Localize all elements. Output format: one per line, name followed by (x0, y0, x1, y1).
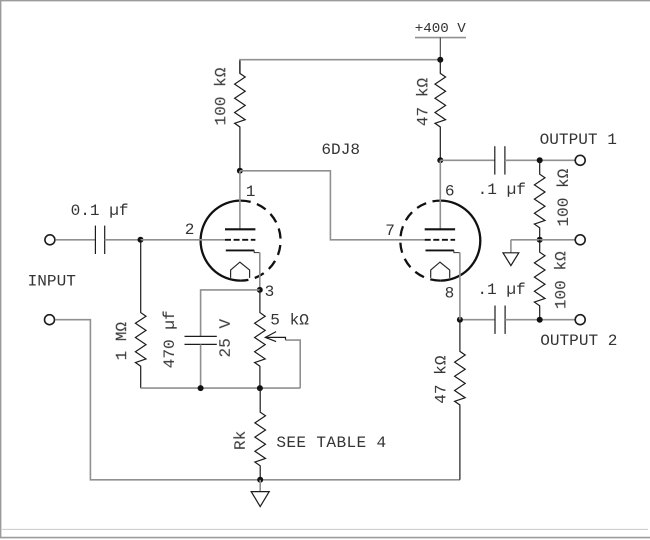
node: V2 plate node (pin 6) (437, 157, 443, 163)
resistor 1 MOhm (grid leak) (135, 240, 146, 388)
V2 cathode tab (454, 250, 460, 252)
V1 grid (dashed) (225, 239, 255, 241)
node: grid node (138, 237, 144, 243)
resistor 47 kOhm (V2 cathode) (455, 320, 466, 480)
wire: input 1 to coupling cap (55, 239, 95, 241)
svg-text:1 MΩ: 1 MΩ (113, 322, 131, 361)
svg-text:3: 3 (265, 283, 275, 301)
svg-text:OUTPUT 2: OUTPUT 2 (540, 332, 617, 350)
window border top (0, 0, 650, 2)
wire: node 3 branch to 470uf cap (201, 290, 260, 336)
svg-text:0.1 µf: 0.1 µf (71, 202, 129, 220)
resistor Rk (common cathode) (255, 388, 266, 480)
svg-text:.1 µf: .1 µf (478, 181, 526, 199)
wire: input 2 down to bottom rail (55, 320, 460, 480)
resistor 100 kOhm (V1 plate load) (235, 61, 246, 171)
wire: midpoint to ground (511, 239, 540, 241)
svg-text:47 kΩ: 47 kΩ (415, 78, 433, 127)
capacitor 470 uf (cathode bypass) (185, 335, 217, 337)
svg-text:470 µf: 470 µf (161, 310, 179, 368)
wire: output 2 rail (460, 319, 495, 321)
V2 grid (dashed) (425, 239, 455, 241)
wire: ground lead below Rk (259, 480, 261, 492)
wire: 470uf bottom lead (200, 344, 202, 388)
svg-text:7: 7 (385, 222, 395, 240)
terminal: OUTPUT 1 (575, 155, 585, 165)
wire: V1 cathode lead down to node 3 (259, 253, 261, 290)
svg-text:8: 8 (445, 284, 455, 302)
wire: V2 cathode lead down (pin 8) (459, 253, 461, 320)
svg-text:INPUT: INPUT (28, 273, 77, 291)
wire: V1 plate to V2 grid coupling (240, 171, 425, 240)
resistor 100 kOhm (lower divider) (534, 240, 545, 320)
node: output 1 node (537, 157, 543, 163)
wire: +400V lead down to node (439, 38, 441, 60)
node: bottom rail at Rk (257, 477, 263, 483)
wire: V1 plate lead (pin 1) (239, 171, 241, 229)
svg-text:5 kΩ: 5 kΩ (270, 311, 309, 329)
node: pot at rail (257, 385, 263, 391)
tube V2 envelope (dashed left arc) (400, 201, 440, 281)
node: output 2 node (537, 317, 543, 323)
window border left (0, 0, 2, 538)
svg-text:6: 6 (445, 183, 455, 201)
V1 heater (231, 262, 250, 278)
terminal: input 2 (45, 315, 55, 325)
tube V1 envelope (dashed right arc) (241, 201, 281, 281)
svg-text:+400 V: +400 V (415, 21, 467, 37)
wire: ground lead (510, 240, 512, 253)
node 3 (257, 287, 263, 293)
node: divider midpoint (537, 237, 543, 243)
svg-text:6DJ8: 6DJ8 (321, 141, 360, 159)
wire: cathode rail (141, 387, 301, 389)
terminal: input 1 (45, 235, 55, 245)
svg-text:47 kΩ: 47 kΩ (432, 355, 450, 404)
svg-text:Rk: Rk (232, 431, 250, 450)
svg-text:.1 µf: .1 µf (477, 281, 525, 299)
capacitor .1 uf (output 2) (494, 306, 496, 334)
wire: V2 plate lead (pin 6) (439, 160, 441, 228)
wire: output 1 rail (440, 159, 495, 161)
svg-text:100 kΩ: 100 kΩ (555, 168, 573, 226)
capacitor .1 uf (output 1) (494, 146, 496, 174)
wire: +400V supply bar (415, 37, 466, 39)
V2 heater (431, 262, 450, 278)
resistor 100 kOhm (upper divider) (534, 160, 545, 240)
node: 470uf at rail (198, 385, 204, 391)
potentiometer 5 kOhm (255, 290, 266, 388)
potentiometer wiper arrow (265, 332, 276, 342)
V1 plate bar (225, 228, 255, 230)
terminal: OUTPUT 2 (575, 315, 585, 325)
ground (main) (251, 492, 269, 507)
node: V1 plate node (237, 168, 243, 174)
svg-text:1: 1 (246, 183, 256, 201)
svg-text:SEE TABLE 4: SEE TABLE 4 (276, 434, 386, 452)
V2 plate bar (425, 228, 455, 230)
wire: grid wire into V1 (141, 239, 226, 241)
page bottom edge line (2, 528, 648, 530)
capacitor 0.1 uf (input) (94, 226, 96, 254)
V1 cathode bar (226, 249, 254, 251)
svg-text:100 kΩ: 100 kΩ (212, 67, 230, 125)
svg-text:2: 2 (185, 221, 195, 239)
wire: cap to output 2 terminal (505, 319, 575, 321)
node: V2 cathode node (pin 8) (457, 317, 463, 323)
wire: midpoint to middle terminal (540, 239, 575, 241)
V2 cathode bar (426, 249, 454, 251)
wire: wiper return to cathode rail (286, 340, 301, 388)
V1 cathode tab (254, 250, 260, 252)
resistor 47 kOhm (V2 plate load) (435, 60, 446, 161)
svg-text:OUTPUT 1: OUTPUT 1 (540, 131, 617, 149)
node: supply node at 47k top (437, 57, 443, 63)
terminal: divider midpoint (575, 235, 585, 245)
svg-text:25 V: 25 V (217, 319, 235, 358)
wire: cap to output 1 terminal (505, 159, 575, 161)
ground (output divider) (503, 253, 519, 266)
wire: top supply rail (240, 60, 440, 74)
window border bottom (0, 537, 650, 539)
tube V1 envelope (solid left arc) (201, 201, 241, 281)
tube V2 envelope (solid right arc) (440, 201, 480, 281)
svg-text:100 kΩ: 100 kΩ (553, 251, 571, 309)
wire: cap to grid node (105, 239, 141, 241)
